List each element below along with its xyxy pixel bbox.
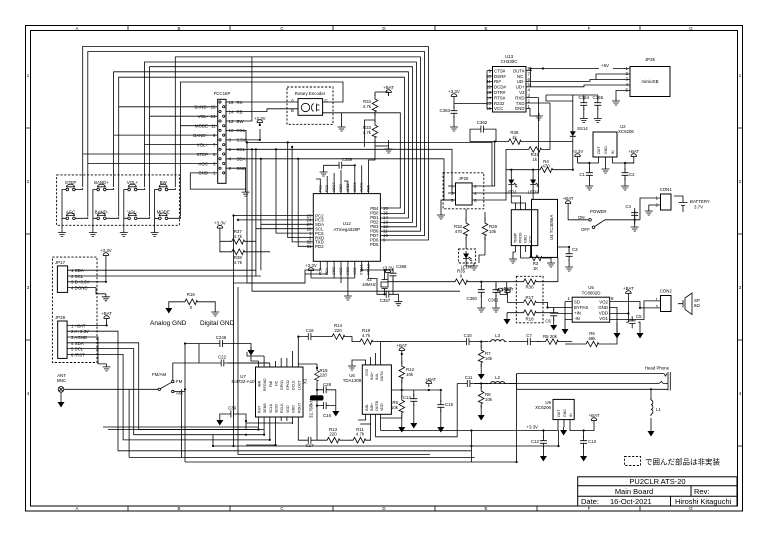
svg-text:TEMP: TEMP [514,232,518,243]
svg-text:12: 12 [229,119,234,124]
svg-text:GND: GND [346,267,350,275]
svg-text:RS1: RS1 [237,128,246,133]
svg-text:SENB: SENB [263,403,267,413]
svg-text:miniUSB: miniUSB [641,79,658,84]
svg-text:BW: BW [237,119,245,124]
svg-text:C361: C361 [488,298,499,303]
svg-text:C357: C357 [380,298,391,303]
svg-text:UD-: UD- [517,79,525,84]
svg-text:C7: C7 [526,333,532,338]
svg-text:ATmega328P: ATmega328P [334,227,361,232]
svg-text:DCLK: DCLK [292,380,296,390]
svg-text:SI4732-A10: SI4732-A10 [231,379,255,384]
svg-text:R16: R16 [187,292,196,297]
svg-text:+IN: +IN [574,311,581,316]
svg-text:Analog GND: Analog GND [150,320,187,327]
svg-text:+BAT: +BAT [501,286,512,291]
svg-text:220: 220 [329,432,337,437]
svg-text:PU2CLR ATS-20: PU2CLR ATS-20 [629,477,685,486]
svg-text:+3.3V: +3.3V [254,116,266,121]
svg-text:GND: GND [563,409,567,417]
svg-text:4.7k: 4.7k [362,333,371,338]
svg-text:で囲んだ部品は非実装: で囲んだ部品は非実装 [645,457,720,467]
svg-text:VCC: VCC [339,267,343,275]
svg-text:C1: C1 [579,172,585,177]
svg-text:4: 4 [739,391,742,396]
svg-text:GND: GND [237,166,247,171]
svg-text:C360: C360 [467,296,478,301]
svg-text:CH330C: CH330C [501,59,518,64]
svg-text:OFF: OFF [581,227,590,232]
svg-text:TXD: TXD [516,101,525,106]
svg-text:ROUT: ROUT [297,402,301,413]
svg-text:IN: IN [569,413,573,417]
svg-text:GND: GND [292,405,296,413]
svg-text:VCC: VCC [494,106,503,111]
svg-text:+BAT: +BAT [589,413,600,418]
svg-text:VO1: VO1 [599,316,608,321]
svg-text:IN: IN [611,150,615,154]
svg-text:8Ω: 8Ω [694,303,700,308]
svg-text:GND: GND [515,106,525,111]
svg-text:1k: 1k [532,157,537,162]
svg-text:STEP: STEP [197,152,209,157]
svg-text:VDD: VDD [286,405,290,413]
svg-text:OUTA: OUTA [380,371,384,381]
svg-text:A: A [291,98,294,103]
svg-text:PD3: PD3 [318,268,322,275]
svg-text:CON1: CON1 [660,187,673,192]
svg-text:2 A+3.3V: 2 A+3.3V [71,329,89,334]
svg-text:SCL: SCL [237,147,246,152]
svg-text:X1: X1 [303,378,308,384]
svg-text:C: C [325,98,328,103]
svg-text:SCLK: SCLK [269,403,273,413]
svg-text:U4 TC4056A: U4 TC4056A [549,215,554,240]
svg-text:3: 3 [451,191,454,196]
svg-text:RI#: RI# [494,79,501,84]
svg-text:C359: C359 [342,157,353,162]
svg-text:INB-: INB- [365,403,369,411]
svg-text:AMI: AMI [257,381,261,387]
svg-text:FMI: FMI [269,381,273,387]
svg-text:1: 1 [451,184,454,189]
svg-text:B: B [291,108,294,113]
svg-text:4: 4 [27,391,30,396]
svg-text:POWER: POWER [590,209,607,214]
svg-text:OUTB: OUTB [375,400,379,411]
svg-text:16: 16 [229,100,234,105]
svg-text:C: C [280,26,283,31]
svg-text:+3.3V: +3.3V [526,425,538,430]
svg-text:OUT: OUT [557,409,561,417]
svg-text:B: B [178,26,181,31]
svg-text:+BAT: +BAT [101,311,112,316]
svg-text:31: 31 [307,244,312,249]
svg-text:VCC: VCC [353,267,357,275]
svg-text:C4: C4 [625,204,631,209]
svg-text:SD: SD [574,300,580,305]
svg-text:INB+: INB+ [370,403,374,411]
svg-text:Digital GND: Digital GND [200,320,235,327]
svg-text:2: 2 [739,179,742,184]
svg-text:PD5: PD5 [370,242,379,247]
svg-text:RB: RB [237,109,243,114]
svg-text:+3.3V: +3.3V [100,248,112,253]
svg-text:OUT: OUT [597,146,601,154]
svg-text:+BAT: +BAT [563,196,574,201]
svg-text:3: 3 [27,285,30,290]
svg-text:4.7k: 4.7k [234,260,243,265]
svg-text:0: 0 [190,305,193,310]
svg-text:16-Oct-2021: 16-Oct-2021 [610,497,652,506]
svg-text:TDA1308: TDA1308 [343,378,362,383]
svg-text:BNC: BNC [57,378,66,383]
svg-text:U5: U5 [588,285,594,290]
svg-text:4.7k: 4.7k [234,234,243,239]
svg-text:G: G [689,26,693,31]
svg-text:6: 6 [474,198,477,203]
svg-text:+5V: +5V [601,63,609,68]
svg-text:C246: C246 [216,335,227,340]
svg-text:C362: C362 [477,120,488,125]
svg-text:VSS: VSS [365,368,369,376]
svg-text:220: 220 [320,373,328,378]
svg-text:8: 8 [611,296,614,301]
svg-text:INA-: INA- [375,372,379,380]
svg-text:+3.3V: +3.3V [214,221,226,226]
svg-text:Rev:: Rev: [694,487,709,496]
svg-text:VCC: VCC [529,235,533,243]
svg-text:Main Board: Main Board [615,487,653,496]
svg-text:C13: C13 [588,439,597,444]
svg-text:AREF: AREF [346,182,350,192]
svg-text:GPO2: GPO2 [286,380,290,390]
svg-text:16MHz: 16MHz [362,282,376,287]
svg-text:TC8002D: TC8002D [582,291,601,296]
svg-text:C14: C14 [403,395,412,400]
svg-text:OUT#: OUT# [513,68,525,73]
svg-text:CTS#: CTS# [494,68,506,73]
svg-text:10k: 10k [391,405,399,410]
svg-text:+BAT: +BAT [623,286,634,291]
svg-text:RFGND: RFGND [263,378,267,391]
svg-text:AVCC: AVCC [360,182,364,192]
svg-text:470: 470 [455,229,463,234]
svg-text:VOL-: VOL- [198,114,209,119]
svg-text:MODE: MODE [195,124,208,129]
svg-text:10k: 10k [406,372,414,377]
svg-text:10: 10 [229,128,234,133]
svg-text:PD4: PD4 [325,268,329,275]
svg-text:C: C [280,506,283,511]
svg-text:C6: C6 [545,319,551,324]
svg-text:GND: GND [524,235,528,243]
svg-text:2: 2 [27,179,30,184]
svg-text:BYPAS: BYPAS [574,305,588,310]
svg-text:+BAT: +BAT [425,377,436,382]
svg-text:RCLK: RCLK [280,403,284,413]
svg-text:NC.: NC. [517,74,525,79]
svg-text:C17: C17 [306,443,315,448]
svg-text:JP25: JP25 [458,176,469,181]
svg-text:R18: R18 [525,317,534,322]
svg-text:ADC7: ADC7 [332,182,336,192]
svg-text:C18: C18 [306,328,315,333]
svg-text:5: 5 [626,87,629,92]
svg-text:BAND-: BAND- [95,209,109,214]
svg-text:G: G [689,506,693,511]
svg-text:+3.3V: +3.3V [572,149,584,154]
svg-text:4: 4 [626,82,629,87]
svg-text:4.7k: 4.7k [363,104,372,109]
svg-text:JP17: JP17 [55,260,66,265]
svg-text:3: 3 [739,285,742,290]
svg-text:5: 5 [451,198,454,203]
svg-text:FCC16P: FCC16P [214,91,231,96]
svg-text:+BAT: +BAT [628,149,639,154]
svg-text:PC1: PC1 [318,185,322,192]
svg-text:VOL+: VOL+ [197,142,209,147]
svg-text:E: E [485,506,488,511]
svg-text:RTS#: RTS# [494,95,506,100]
svg-text:F: F [588,506,591,511]
svg-text:VDD: VDD [380,403,384,411]
svg-text:ADC6: ADC6 [353,182,357,192]
svg-text:GPO1: GPO1 [280,380,284,390]
svg-text:D: D [382,506,385,511]
svg-text:10k: 10k [489,229,497,234]
svg-text:C22: C22 [218,355,227,360]
svg-text:BATTERY: BATTERY [690,199,710,204]
svg-text:C5: C5 [636,314,642,319]
svg-text:A: A [76,26,79,31]
svg-text:+3.3V: +3.3V [448,89,460,94]
svg-text:6 /RST: 6 /RST [71,352,85,357]
svg-text:+BAT: +BAT [396,343,407,348]
svg-text:11: 11 [211,124,216,129]
svg-text:JP28: JP28 [55,315,66,320]
svg-text:PROG: PROG [519,232,523,243]
svg-text:3.7V: 3.7V [694,205,703,210]
svg-text:C28: C28 [323,382,332,387]
svg-text:7: 7 [528,71,531,76]
svg-text:DSR#: DSR# [494,74,506,79]
svg-text:SS14: SS14 [577,126,588,131]
svg-text:1K: 1K [533,266,538,271]
svg-text:470: 470 [542,164,550,169]
svg-text:RX: RX [237,100,243,105]
svg-text:Hiroshi Kitaguchi: Hiroshi Kitaguchi [675,497,732,506]
svg-text:4.7k: 4.7k [363,130,372,135]
svg-text:1: 1 [739,73,742,78]
svg-text:C15: C15 [445,402,454,407]
svg-text:R17: R17 [525,295,534,300]
svg-text:-IN: -IN [574,316,580,321]
svg-text:R5 20k: R5 20k [543,334,558,339]
svg-text:0: 0 [460,274,463,279]
svg-text:GND: GND [332,267,336,275]
svg-text:10k: 10k [485,356,493,361]
svg-text:DTR#: DTR# [494,90,506,95]
svg-text:+BAT: +BAT [383,85,394,90]
svg-text:4: 4 [528,88,531,93]
svg-text:B: B [178,506,181,511]
svg-text:+3.3V: +3.3V [305,263,317,268]
svg-text:2: 2 [474,184,477,189]
svg-text:F: F [588,26,591,31]
svg-text:68k: 68k [588,336,596,341]
svg-text:BAND+: BAND+ [193,133,208,138]
svg-text:XC6206: XC6206 [535,405,551,410]
svg-text:C39: C39 [228,406,237,411]
svg-text:C363: C363 [440,108,451,113]
svg-text:C3: C3 [572,247,578,252]
svg-text:XC6206: XC6206 [618,129,634,134]
svg-text:L2: L2 [495,375,500,380]
svg-text:C358: C358 [396,264,407,269]
svg-text:E: E [485,26,488,31]
svg-text:SDIO: SDIO [275,404,279,413]
svg-text:Date:: Date: [581,497,599,506]
svg-text:1 +BAT: 1 +BAT [71,323,86,328]
svg-text:C11: C11 [465,375,473,380]
svg-text:SDA: SDA [237,157,246,162]
svg-text:NC: NC [275,380,279,386]
svg-text:C12: C12 [531,439,540,444]
svg-text:MODE: MODE [157,209,170,214]
svg-text:C16: C16 [323,413,332,418]
svg-text:C2: C2 [629,172,635,177]
svg-text:AGC: AGC [198,161,208,166]
svg-text:GND: GND [604,146,608,154]
svg-text:LOUT: LOUT [297,380,301,390]
svg-text:1: 1 [568,296,571,301]
svg-text:A: A [76,506,79,511]
svg-text:PB5: PB5 [367,185,371,192]
svg-text:JP26: JP26 [645,57,656,62]
svg-text:15: 15 [211,105,216,110]
svg-text:4: 4 [474,191,477,196]
svg-text:UD+: UD+ [516,85,525,90]
svg-text:V3: V3 [519,90,525,95]
svg-text:R232: R232 [494,101,505,106]
svg-text:1: 1 [27,73,30,78]
svg-text:Rotary Encoder: Rotary Encoder [295,91,326,96]
svg-text:4.7k: 4.7k [356,432,365,437]
svg-text:R36: R36 [525,285,534,290]
svg-text:13: 13 [211,114,216,119]
svg-text:3.3V: 3.3V [237,138,246,143]
svg-text:RXD: RXD [515,95,524,100]
svg-text:220: 220 [334,328,342,333]
svg-text:RST: RST [257,405,261,413]
svg-text:VDD: VDD [599,311,608,316]
svg-text:PD2: PD2 [315,244,324,249]
svg-text:L3: L3 [495,333,500,338]
svg-text:L1: L1 [656,407,661,412]
svg-text:ON: ON [578,215,585,220]
svg-text:CON2: CON2 [660,289,673,294]
svg-text:14: 14 [229,109,234,114]
svg-text:3 AGND: 3 AGND [71,335,87,340]
svg-text:GND: GND [598,305,608,310]
svg-text:DCD#: DCD# [494,85,507,90]
svg-text:GND: GND [198,171,208,176]
svg-text:C10: C10 [464,333,473,338]
svg-text:FM/AM: FM/AM [152,372,166,377]
svg-text:Head Phone: Head Phone [645,366,670,371]
svg-text:10k: 10k [485,397,493,402]
svg-text:5 SCL: 5 SCL [71,347,84,352]
svg-text:BAND-: BAND- [194,105,208,110]
svg-text:VO2: VO2 [599,300,608,305]
svg-text:INA+: INA+ [370,372,374,380]
svg-text:4 SDA: 4 SDA [71,341,84,346]
svg-text:FM: FM [176,379,183,384]
svg-text:D: D [382,26,385,31]
svg-text:1k: 1k [512,135,517,140]
svg-text:GND: GND [339,184,343,192]
svg-text:U12: U12 [343,221,352,226]
svg-text:PC0: PC0 [325,185,329,192]
